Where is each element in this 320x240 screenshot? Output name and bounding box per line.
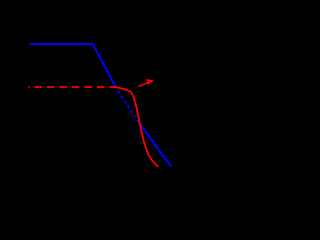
red arrow: head <box>146 79 154 85</box>
blue curve: dashed metastable extension <box>118 91 140 124</box>
red arrow: shaft <box>139 83 149 87</box>
blue curve: solid lower branch <box>139 123 171 166</box>
red curve: dashed horizontal level <box>28 86 115 88</box>
blue curve: solid upper branch (horizontal plateau + steep descent) <box>30 44 116 88</box>
red curve: solid descending branch <box>114 87 158 167</box>
